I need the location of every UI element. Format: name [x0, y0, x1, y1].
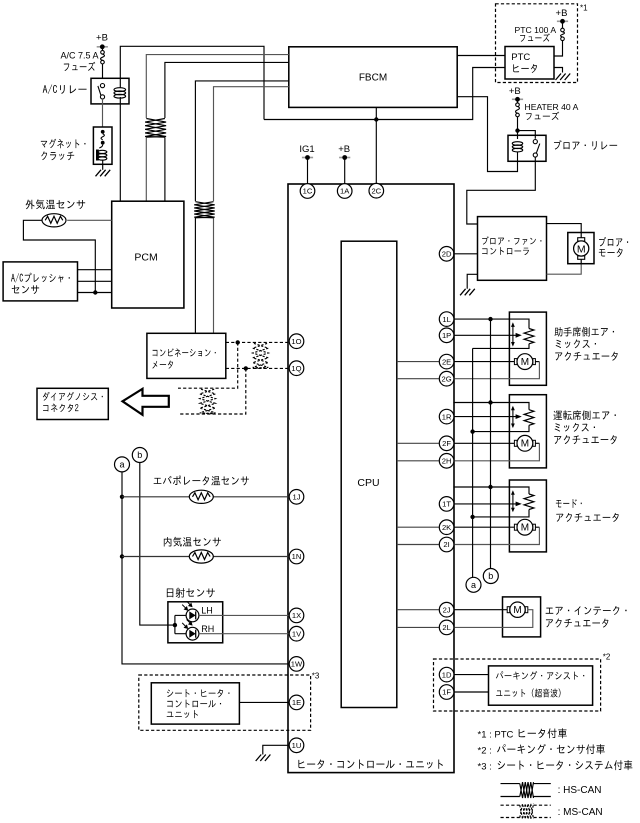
wire RH to 1V	[199, 633, 289, 635]
wire outside sensor to PCM	[67, 219, 112, 221]
wire FBCM to PCM CAN line 1	[146, 55, 288, 202]
pin 1V	[289, 626, 304, 641]
svg-text:IG1: IG1	[299, 144, 314, 155]
block arrow to diagnosis connector	[123, 389, 169, 415]
svg-text:1W: 1W	[291, 660, 303, 669]
twisted pair HS-CAN (FBCM-meter)	[194, 201, 215, 218]
travel arrow U2 passenger air mix	[512, 324, 514, 346]
pin 1W	[289, 657, 304, 672]
junction b/act1	[488, 317, 492, 321]
pin 2L	[439, 620, 454, 635]
pin 1T	[439, 497, 454, 512]
svg-text:PCM: PCM	[134, 251, 157, 263]
svg-text:2G: 2G	[442, 374, 452, 383]
wire U2 passenger air mix motor return	[535, 361, 539, 363]
photodiode RH	[175, 620, 199, 641]
dashed option box parking (*2)	[434, 659, 601, 711]
label passenger air mix actuator	[554, 327, 617, 361]
svg-text:1U: 1U	[292, 741, 302, 750]
ground (blower controller)	[460, 289, 475, 296]
twisted pair MS-CAN (diagnosis)	[200, 389, 216, 413]
svg-text:PTC 100 A: PTC 100 A	[515, 25, 557, 35]
label air intake actuator	[546, 606, 627, 628]
label heater control unit	[298, 759, 442, 768]
dashed wire meter to 1Q	[226, 367, 289, 369]
svg-text:1P: 1P	[442, 331, 451, 340]
svg-text:*2 :: *2 :	[478, 745, 492, 756]
combination meter box	[147, 333, 226, 378]
svg-text:*3: *3	[312, 672, 320, 681]
wire +B to 1A	[344, 158, 346, 184]
thermistor evaporator	[189, 490, 213, 503]
label blower motor	[599, 237, 628, 257]
pin 2J	[439, 602, 454, 617]
label mode actuator	[556, 499, 619, 522]
svg-text:2K: 2K	[442, 523, 451, 532]
label sun sensor	[167, 588, 215, 598]
svg-text:*2: *2	[603, 653, 611, 662]
label magnet clutch	[41, 139, 86, 161]
wire a-net vertical	[122, 472, 289, 664]
wire FBCM to meter CAN line 1	[195, 81, 288, 333]
svg-text:*3 :: *3 :	[478, 761, 492, 772]
wire sun sensor common	[174, 615, 176, 633]
potentiometer U2 passenger air mix	[524, 329, 534, 344]
wire evap sensor row	[122, 496, 289, 498]
wire FBCM to PCM CAN line 2	[165, 62, 289, 201]
svg-text:1J: 1J	[292, 493, 300, 502]
wire pressure sensor to PCM 1	[78, 269, 112, 271]
wire CPU to 2H	[397, 460, 439, 462]
pin 2D	[439, 247, 454, 262]
node +B (PTC)	[556, 8, 569, 24]
sun sensor box	[168, 602, 223, 643]
ground (1U)	[256, 755, 271, 762]
svg-text:2L: 2L	[442, 623, 450, 632]
pin 1A	[337, 184, 352, 199]
wire CPU to 2K	[397, 526, 439, 528]
pin 1F	[439, 685, 454, 700]
label PTC 100 A fuse	[515, 25, 557, 42]
svg-text:2I: 2I	[443, 540, 449, 549]
photodiode LH	[175, 601, 199, 622]
wire 1D to parking	[454, 674, 489, 676]
wire U2 passenger air mix motor feed	[454, 361, 514, 363]
seat heater control unit box	[151, 683, 239, 724]
diagnosis connector box	[37, 388, 108, 419]
FBCM box	[289, 47, 457, 108]
node +B (A/C)	[96, 33, 108, 50]
pin 1Q	[289, 361, 304, 376]
wire 1U to ground	[263, 745, 289, 754]
fuse A/C 7.5A	[101, 51, 105, 64]
dashed wire to diagnosis line 2	[178, 368, 246, 414]
motor U3 driver air mix	[514, 435, 535, 451]
wire U3 driver air mix motor feed	[454, 442, 514, 444]
wire +B to heater fuse	[517, 99, 519, 103]
relay A/C: switch contacts	[98, 84, 105, 100]
svg-text:FBCM: FBCM	[359, 72, 387, 83]
pin 2I	[439, 537, 454, 552]
pin 1L	[439, 312, 454, 327]
junction dashed 1	[236, 340, 240, 344]
fuse PTC 100A	[561, 28, 565, 40]
blower fan controller box	[478, 217, 547, 281]
potentiometer U4 mode	[524, 494, 534, 510]
node IG1	[299, 144, 314, 160]
travel arrow U4 mode	[512, 492, 514, 512]
svg-text:1V: 1V	[292, 629, 302, 638]
pin 1N	[289, 549, 304, 564]
wire heater fuse to relay	[517, 117, 519, 139]
svg-text:1E: 1E	[292, 698, 301, 707]
svg-text:2F: 2F	[442, 439, 451, 448]
parking assist unit box	[489, 666, 593, 705]
actuator U2 passenger air mix: box	[509, 312, 546, 385]
junction pressure/loop	[93, 290, 97, 294]
wire act1 resistor bottom to a-net	[473, 344, 529, 349]
junction sun sensor	[173, 623, 177, 627]
svg-text:M: M	[513, 605, 521, 616]
wire controller to motor +	[547, 224, 582, 233]
wire U3 driver air mix motor return	[535, 442, 539, 444]
label evaporator temp sensor	[154, 476, 249, 486]
motor U4 mode	[514, 519, 535, 535]
wire seat heater to 1E	[239, 701, 289, 703]
svg-text:1D: 1D	[442, 670, 452, 679]
wire intake motor return to 2L	[454, 610, 533, 628]
pin 2H	[439, 454, 454, 469]
label HEATER 40 A fuse	[525, 102, 579, 120]
wire 1F to parking	[454, 691, 489, 693]
svg-text:1O: 1O	[291, 337, 301, 346]
A/C pressure sensor box	[3, 262, 77, 301]
wire 2C net horizontal (relay coil / PTC heater)	[264, 68, 505, 120]
svg-text:M: M	[521, 357, 529, 368]
wire CPU to 2J	[397, 609, 439, 611]
wire U2 passenger air mix pot supply	[453, 319, 529, 328]
svg-text:1Q: 1Q	[291, 364, 301, 373]
pin 1X	[289, 608, 304, 623]
junction b/act2	[488, 400, 492, 404]
ground (PTC heater)	[556, 74, 571, 81]
blower relay box	[508, 135, 546, 161]
wire U3 driver air mix pot supply	[453, 403, 529, 410]
svg-text:M: M	[577, 243, 586, 255]
wire pressure sensor to PCM 2	[78, 280, 112, 282]
svg-text:1N: 1N	[292, 552, 302, 561]
svg-text:1A: 1A	[340, 187, 350, 196]
junction b/act3	[488, 485, 492, 489]
svg-text:2H: 2H	[442, 457, 452, 466]
pin 1R	[439, 409, 454, 424]
wire junction to relay contact	[518, 131, 536, 139]
magnet clutch: box	[93, 127, 112, 164]
node +B (unit)	[338, 144, 350, 160]
wire CPU to 2I	[397, 544, 439, 546]
wire CPU to 2G	[397, 378, 439, 380]
svg-text:1L: 1L	[442, 315, 450, 324]
pin 1J	[289, 490, 304, 505]
pin 1D	[439, 667, 454, 682]
actuator U3 driver air mix: box	[509, 395, 546, 468]
pin 2F	[439, 436, 454, 451]
wire controller to ground	[467, 274, 477, 289]
dashed option box PTC (*1)	[496, 4, 578, 83]
ground (magnet clutch)	[96, 170, 111, 177]
pin 1O	[289, 334, 304, 349]
junction 2C net	[374, 117, 378, 121]
pin 2G	[439, 371, 454, 386]
svg-text:2J: 2J	[443, 605, 451, 614]
pin 2K	[439, 520, 454, 535]
travel arrow U3 driver air mix	[512, 407, 514, 427]
pin 1C	[300, 184, 315, 199]
svg-text:2D: 2D	[442, 250, 452, 259]
twisted pair HS-CAN (FBCM-PCM)	[145, 118, 166, 138]
twisted pair MS-CAN (meter)	[252, 343, 268, 367]
svg-text:a: a	[471, 580, 476, 590]
wire FBCM right to blower relay coil	[457, 97, 517, 172]
label A/C relay	[43, 84, 87, 94]
svg-text:*1 : PTC: *1 : PTC	[478, 730, 514, 741]
pin 1E	[289, 695, 304, 710]
wire PTC heater to ground	[554, 68, 563, 73]
air intake actuator box	[503, 597, 541, 637]
wire U4 mode motor feed	[454, 526, 514, 528]
svg-text:2E: 2E	[442, 357, 451, 366]
wire 2D to controller	[454, 253, 478, 255]
svg-text:b: b	[488, 571, 493, 581]
wire FBCM to meter CAN line 2	[214, 87, 289, 333]
wire b-net vertical (right)	[490, 319, 492, 568]
node b (right)	[483, 569, 498, 584]
wire FBCM to 2C with branch	[375, 107, 377, 183]
PCM box	[112, 201, 184, 308]
wire relay coil top to FBCM/2C net	[120, 46, 264, 119]
junction a/evap	[120, 495, 124, 499]
label outside air temp sensor	[26, 199, 86, 209]
junction a/act2	[470, 429, 474, 433]
svg-text:2C: 2C	[371, 186, 381, 195]
svg-text:*1: *1	[580, 4, 588, 13]
svg-text:+B: +B	[96, 33, 108, 44]
junction dashed 2	[244, 366, 248, 370]
blower motor box	[568, 233, 594, 264]
wire CPU to 2E	[397, 361, 439, 363]
thermistor outside air	[42, 214, 66, 227]
PTC heater box	[505, 47, 554, 80]
wire outside sensor loop	[23, 220, 95, 292]
wire PTC fuse to PTC heater	[554, 41, 563, 56]
wire controller to motor -	[547, 264, 582, 275]
dashed wire meter to 1O	[226, 341, 289, 343]
svg-text:+B: +B	[338, 144, 350, 155]
wire CPU to 2L	[397, 626, 439, 628]
svg-text:1R: 1R	[442, 412, 452, 421]
pin 1P	[439, 328, 454, 343]
thermistor room	[189, 550, 213, 563]
air intake motor	[507, 602, 528, 617]
wire CPU to 2F	[397, 442, 439, 444]
wire IG1 to 1C	[307, 158, 309, 184]
wire FBCM right to PTC heater	[457, 55, 505, 57]
wire room sensor row	[122, 556, 289, 558]
wire U2 passenger air mix wiper	[454, 334, 517, 336]
wire pressure sensor to PCM 3	[78, 292, 112, 294]
wire b-net vertical to sun sensor	[140, 463, 175, 626]
relay A/C: box	[91, 78, 129, 104]
node a (left)	[115, 457, 130, 472]
heater control unit box	[288, 184, 454, 773]
fuse HEATER 40A	[516, 103, 520, 117]
junction blower relay	[515, 128, 519, 132]
svg-text:1X: 1X	[292, 611, 301, 620]
wire relay coil bottom to PCM	[119, 97, 121, 201]
wire U4 mode wiper	[454, 503, 517, 505]
pin 2C	[369, 183, 384, 198]
junction a/room	[120, 554, 124, 558]
svg-text:M: M	[521, 523, 529, 534]
wire clutch to ground	[102, 164, 104, 170]
svg-text:RH: RH	[201, 624, 214, 634]
wire fuse to relay	[102, 64, 104, 78]
pin 1U	[289, 738, 304, 753]
label driver air mix actuator	[553, 410, 616, 444]
node b (left)	[132, 448, 147, 463]
relay A/C: coil	[114, 88, 126, 98]
potentiometer U3 driver air mix	[524, 410, 534, 426]
svg-text:a: a	[119, 460, 124, 470]
actuator U4 mode: box	[509, 480, 546, 552]
wire act3 resistor bottom to a-net	[473, 510, 529, 517]
junction a/act3	[470, 515, 474, 519]
node a (right)	[466, 577, 481, 592]
wire a-net vertical (right)	[472, 348, 474, 577]
legend MS-CAN symbol	[501, 804, 520, 806]
wire U4 mode pot supply	[453, 487, 529, 494]
svg-text:A/C 7.5 A: A/C 7.5 A	[61, 51, 99, 61]
svg-text:b: b	[137, 450, 142, 460]
legend HS-CAN symbol	[501, 783, 520, 785]
wire +B to PTC fuse	[562, 21, 564, 28]
svg-text:M: M	[521, 439, 529, 450]
svg-text:CPU: CPU	[357, 477, 379, 489]
wire blower relay to controller	[467, 161, 536, 224]
label blower relay	[554, 140, 617, 150]
motor U2 passenger air mix	[514, 354, 535, 370]
dashed option box seat heater (*3)	[139, 675, 311, 730]
svg-text:LH: LH	[201, 606, 213, 616]
node +B (heater)	[509, 86, 523, 102]
svg-text:1T: 1T	[442, 500, 451, 509]
wire relay switch to clutch	[102, 99, 104, 127]
svg-text:HEATER 40 A: HEATER 40 A	[525, 102, 579, 112]
svg-text:: MS-CAN: : MS-CAN	[558, 807, 603, 818]
wire U4 mode motor return	[535, 526, 539, 528]
svg-text:: HS-CAN: : HS-CAN	[558, 785, 602, 796]
wire U3 driver air mix wiper	[454, 416, 517, 418]
pin 2E	[439, 354, 454, 369]
wire 2J to intake motor	[454, 609, 507, 611]
wire LH to 1X	[199, 614, 289, 616]
svg-text:1C: 1C	[303, 187, 313, 196]
wire +B to fuse	[102, 47, 104, 51]
svg-text:PTC: PTC	[511, 52, 530, 63]
blower relay contacts	[533, 140, 540, 162]
svg-text:+B: +B	[509, 86, 521, 97]
blower relay coil	[512, 142, 522, 162]
CPU box	[341, 241, 397, 707]
dashed wire to diagnosis line 1	[178, 342, 238, 388]
label A/C 7.5 A fuse	[61, 51, 99, 71]
wire act2 resistor bottom to a-net	[473, 425, 529, 431]
label room temp sensor	[164, 537, 221, 547]
svg-text:+B: +B	[556, 8, 568, 19]
magnet clutch: internals	[96, 130, 107, 164]
blower motor M	[574, 233, 589, 264]
svg-text:1F: 1F	[442, 688, 451, 697]
